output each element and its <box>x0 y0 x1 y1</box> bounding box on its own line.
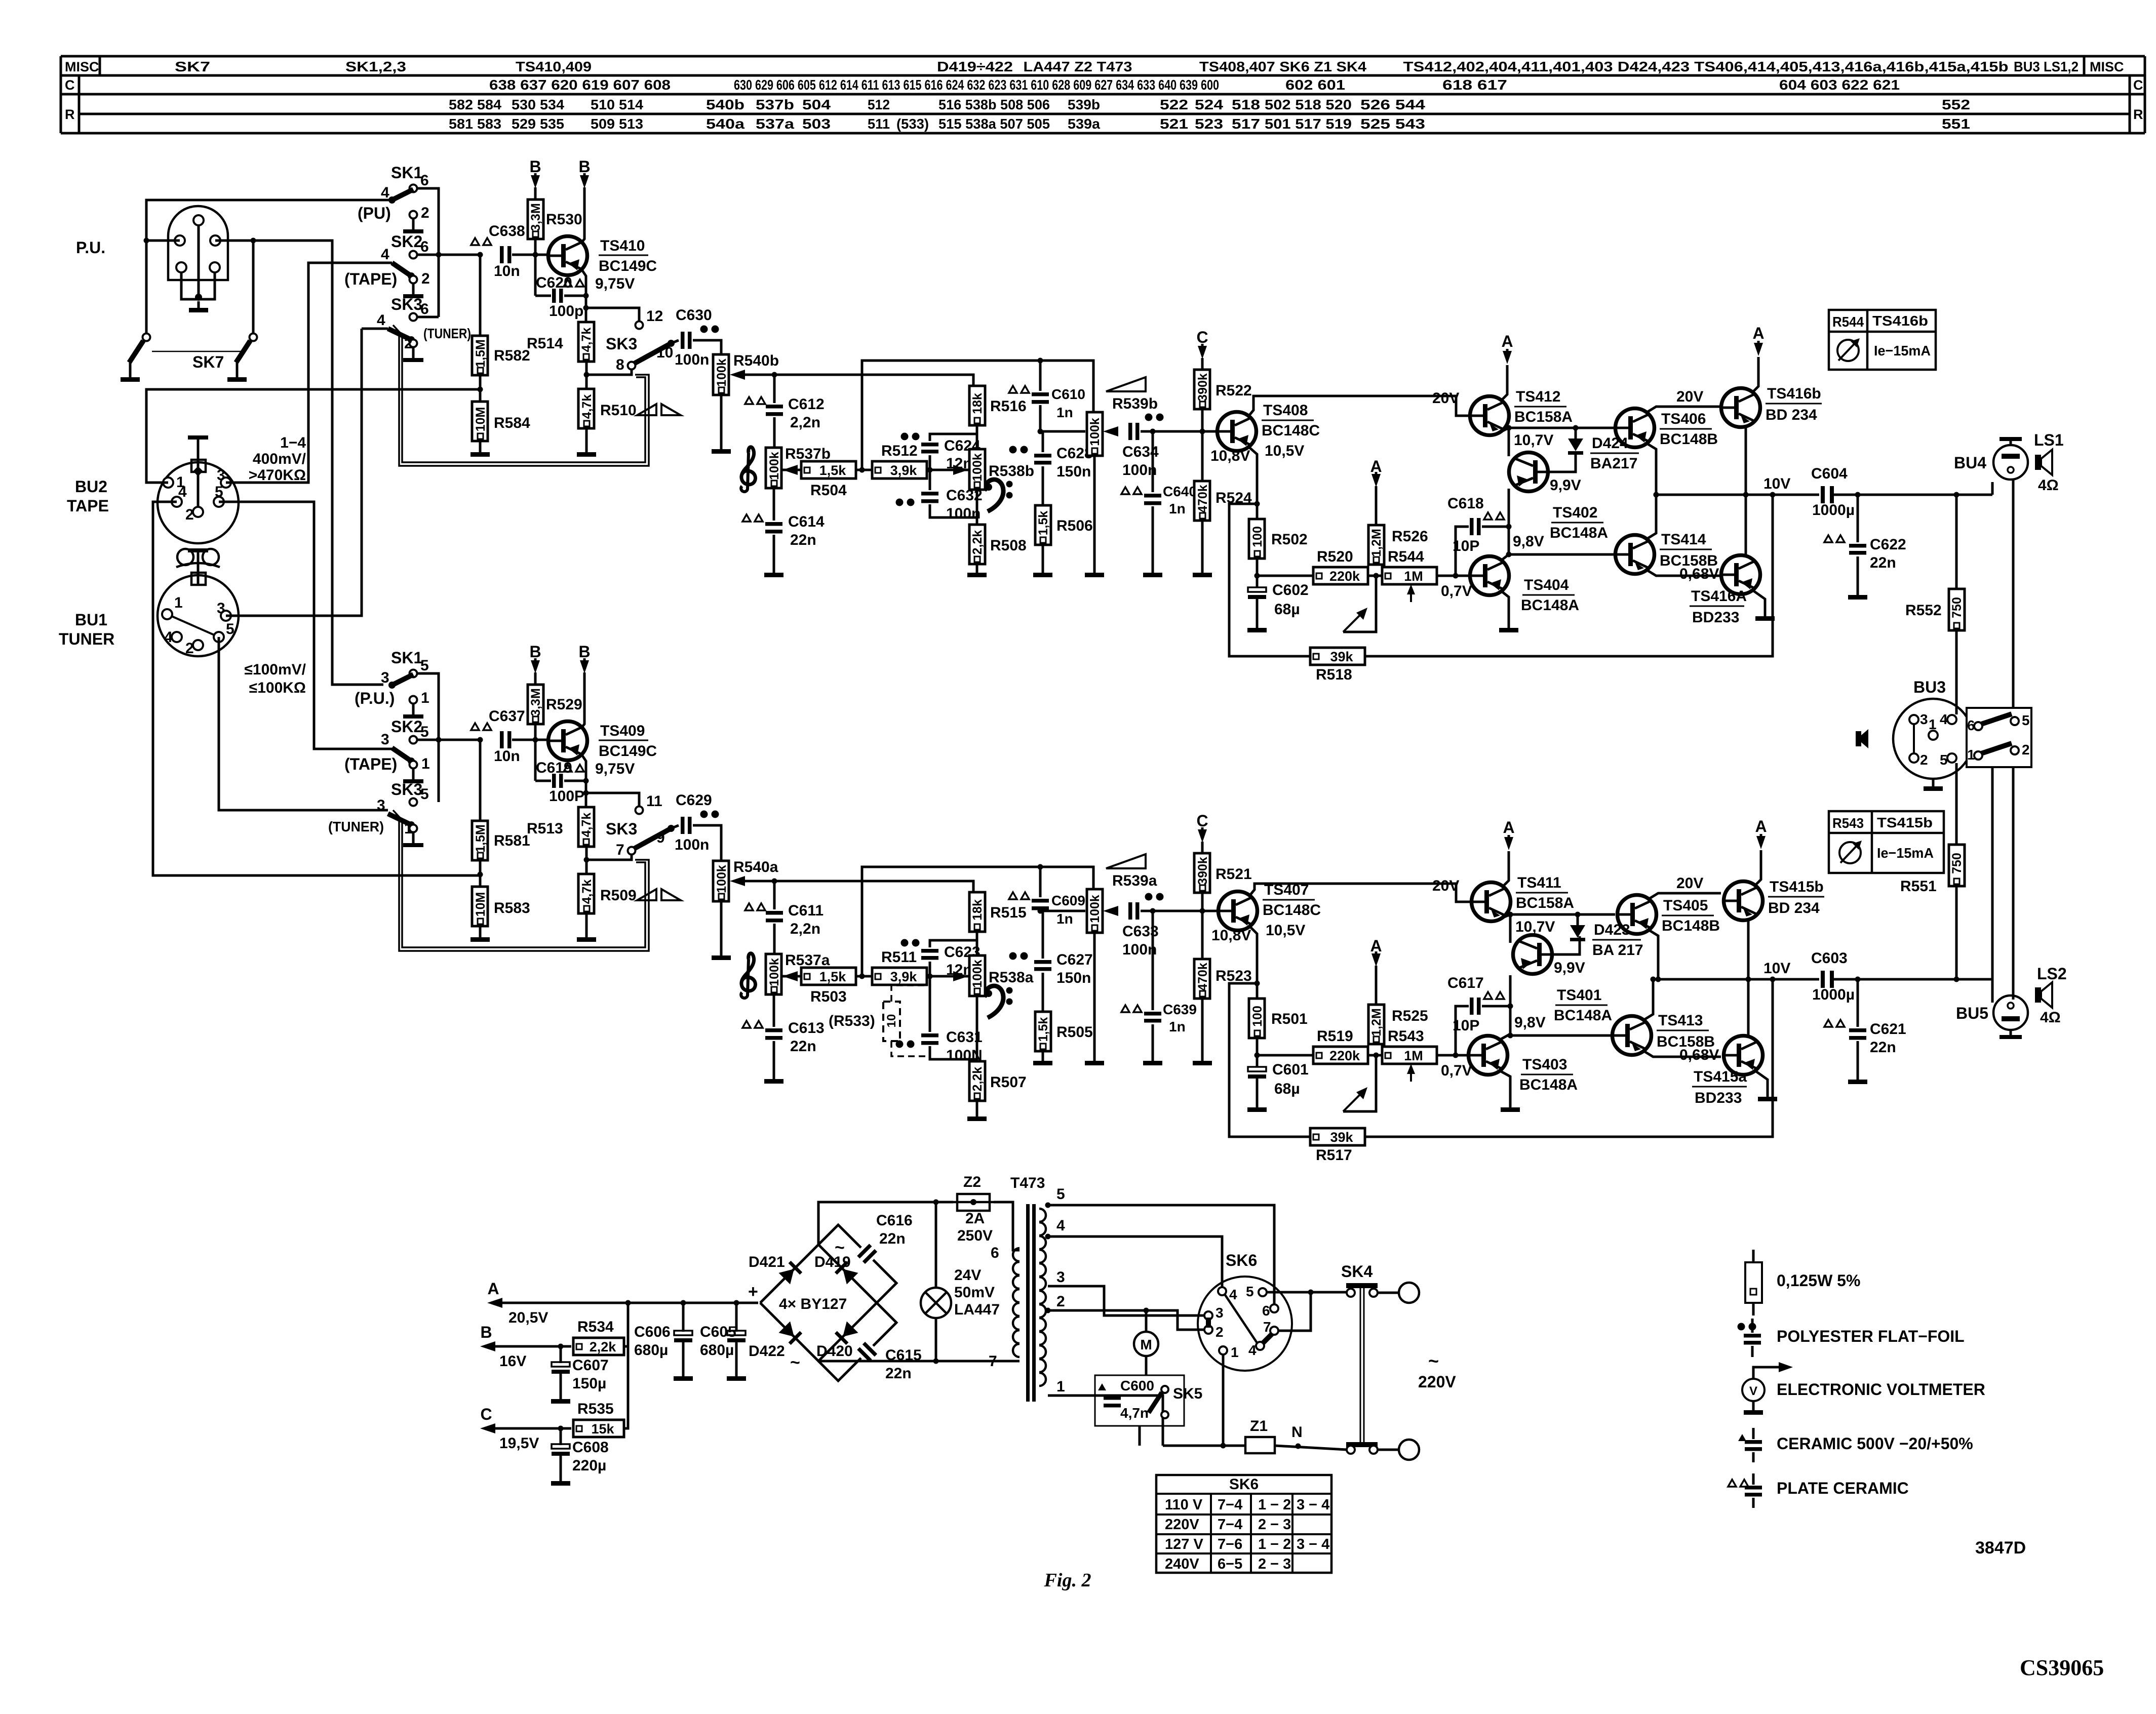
icon treble clef b <box>741 447 756 485</box>
svg-text:R543: R543 <box>1388 1028 1424 1045</box>
svg-text:10n: 10n <box>494 263 520 280</box>
svg-text:9,9V: 9,9V <box>1550 477 1581 494</box>
capacitor C601 <box>1248 1067 1266 1071</box>
wire switch to lower rail corner <box>1991 767 1994 979</box>
transistor TS410 (BC149C) <box>548 236 587 275</box>
svg-text:BC148C: BC148C <box>1263 902 1321 919</box>
svg-text:A: A <box>487 1280 499 1298</box>
svg-text:R503: R503 <box>810 988 847 1005</box>
svg-text:39k: 39k <box>1330 1130 1353 1145</box>
svg-text:R537b: R537b <box>785 446 831 462</box>
svg-text:1: 1 <box>1967 747 1975 763</box>
svg-text:11: 11 <box>646 793 662 810</box>
svg-text:4: 4 <box>377 312 385 329</box>
marker plate-ceramic C640 <box>1121 487 1129 494</box>
transistor TS411 (BC158A) <box>1472 883 1511 922</box>
svg-text:~: ~ <box>1428 1350 1439 1371</box>
wire tap4 to SK6 pin4 <box>1048 1237 1222 1287</box>
transistor TS416b (BD234) <box>1721 388 1760 427</box>
svg-text:SK5: SK5 <box>1173 1385 1202 1402</box>
node emitter TS410 <box>583 293 589 299</box>
ground R507 <box>976 1101 978 1117</box>
resistor R519 <box>1313 1047 1368 1064</box>
switch SK3 lower contact 1 bar <box>412 832 415 843</box>
node divider a <box>478 872 483 878</box>
node TS414 collector rail <box>1654 492 1659 498</box>
transistor TS413 (BC158B) <box>1613 1016 1652 1055</box>
wire TS402 base to D424 <box>1548 454 1576 472</box>
wire R544 to base <box>1437 575 1470 577</box>
wire node to R539b <box>1040 430 1085 433</box>
svg-text:5: 5 <box>215 484 223 500</box>
svg-text:6: 6 <box>991 1245 999 1261</box>
wire C627 bottom <box>1042 973 1044 1012</box>
resistor R516 <box>969 386 985 425</box>
connector BU4 (speaker jack) <box>1993 445 2028 480</box>
svg-text:R502: R502 <box>1271 531 1308 548</box>
svg-text:R515: R515 <box>990 904 1027 921</box>
resistor R505 <box>1035 1012 1051 1051</box>
ground TS415a <box>1767 1095 1769 1097</box>
svg-text:SK2: SK2 <box>391 232 422 251</box>
wire TS416A emitter <box>1753 590 1765 614</box>
node C618 left <box>1453 1053 1459 1058</box>
svg-text:R504: R504 <box>810 482 847 499</box>
capacitor C624 <box>921 443 938 447</box>
svg-text:0,7V: 0,7V <box>1441 583 1472 600</box>
wire TS401 base to D423 <box>1552 936 1580 954</box>
wire emitter node to contact 12 <box>586 793 639 806</box>
node M top <box>1144 1308 1149 1313</box>
svg-text:LS1: LS1 <box>2034 431 2064 449</box>
svg-text:C613: C613 <box>788 1020 825 1037</box>
svg-text:D420: D420 <box>816 1343 853 1360</box>
capacitor C620 <box>552 289 556 303</box>
svg-text:4Ω: 4Ω <box>2040 1009 2061 1026</box>
svg-text:18k: 18k <box>970 899 985 921</box>
svg-text:3: 3 <box>381 669 389 686</box>
terminal A supply TS416b <box>1754 343 1763 356</box>
svg-text:10V: 10V <box>1763 960 1790 977</box>
ground C601 <box>1256 1079 1259 1107</box>
svg-text:5: 5 <box>420 657 429 674</box>
wire TS408 collector bus <box>1249 396 1470 416</box>
resistor R535 <box>573 1420 624 1437</box>
svg-text:ELECTRONIC VOLTMETER: ELECTRONIC VOLTMETER <box>1777 1380 1985 1399</box>
switch SK1 lower contact 1 bar <box>412 703 415 714</box>
wire C628 bottom <box>1042 466 1044 505</box>
wire to SK4 contact <box>1311 1291 1347 1294</box>
svg-text:TS415a: TS415a <box>1694 1068 1747 1085</box>
node lamp top <box>933 1200 939 1205</box>
svg-text:R530: R530 <box>546 211 582 228</box>
wire C616 branch <box>818 1225 861 1248</box>
svg-text:521: 521 <box>1160 116 1188 132</box>
svg-text:3,9k: 3,9k <box>890 463 918 478</box>
svg-text:TS410: TS410 <box>600 237 645 254</box>
svg-text:537b: 537b <box>756 97 794 112</box>
node emitter rail <box>1656 977 1661 982</box>
wire SK4 to plug top <box>1378 1292 1399 1294</box>
svg-text:C603: C603 <box>1811 950 1848 967</box>
svg-text:7: 7 <box>989 1353 997 1370</box>
svg-text:C605: C605 <box>700 1324 736 1340</box>
svg-text:R544: R544 <box>1832 314 1864 330</box>
node R514 bottom <box>584 372 590 378</box>
wire B rail <box>495 1345 571 1348</box>
switch SK2 contact 2 <box>410 276 417 284</box>
svg-text:539b: 539b <box>1068 97 1100 112</box>
svg-text:100n: 100n <box>675 836 709 853</box>
capacitor C614 <box>765 522 782 526</box>
wire R504-R512 <box>856 469 872 471</box>
svg-text:R514: R514 <box>527 335 563 352</box>
svg-text:R511: R511 <box>881 949 917 966</box>
node SK2-5 junction (lower) <box>436 737 442 743</box>
resistor R521 <box>1194 853 1210 893</box>
svg-text:100k: 100k <box>970 453 985 482</box>
marker polyester C627 <box>1009 952 1017 960</box>
svg-text:1,5k: 1,5k <box>1036 511 1050 536</box>
ground TS416A <box>1764 614 1767 616</box>
svg-text:3: 3 <box>1920 711 1928 727</box>
terminal A supply R526 <box>1371 474 1381 487</box>
wire feedback right <box>1365 495 1773 656</box>
svg-text:SK4: SK4 <box>1341 1262 1373 1281</box>
switch SK3 lever a <box>634 828 671 849</box>
wire TS401 emitter down <box>1509 975 1512 1006</box>
svg-text:(533): (533) <box>896 116 929 132</box>
rectifier bridge outline <box>760 1245 877 1361</box>
potentiometer R540b <box>713 354 729 395</box>
svg-text:SK6: SK6 <box>1229 1476 1259 1493</box>
svg-text:1000µ: 1000µ <box>1812 502 1855 519</box>
svg-text:C629: C629 <box>676 792 712 809</box>
svg-text:3: 3 <box>377 797 385 814</box>
ground R505 <box>1042 1051 1044 1061</box>
marker plate-ceramic C638 <box>471 238 479 245</box>
node 9,8V <box>1506 552 1512 557</box>
svg-text:TS414: TS414 <box>1661 531 1706 548</box>
wire C627 top <box>1040 911 1043 959</box>
svg-text:524: 524 <box>1195 97 1224 112</box>
svg-text:7−4: 7−4 <box>1218 1517 1242 1533</box>
capacitor C621 <box>1849 1028 1866 1032</box>
node R530 bottom a <box>533 737 538 743</box>
capacitor C639 <box>1144 1012 1161 1016</box>
wire TS408 emitter <box>1249 447 1257 519</box>
svg-text:100: 100 <box>1250 526 1265 547</box>
svg-text:4,7k: 4,7k <box>579 813 594 838</box>
svg-text:TS416b: TS416b <box>1767 385 1821 402</box>
wire C633 to base node <box>1141 910 1228 912</box>
wire TS416A collector to rail <box>1745 495 1747 556</box>
svg-text:C611: C611 <box>788 902 824 919</box>
svg-text:516 538b 508 506: 516 538b 508 506 <box>938 97 1050 112</box>
transistor TS401 (BC148A) <box>1513 935 1552 974</box>
svg-text:501 517 519: 501 517 519 <box>1265 116 1352 132</box>
wire C607 stub <box>560 1346 562 1363</box>
switch SK7 left ground <box>129 363 132 377</box>
svg-text:2A: 2A <box>965 1210 985 1227</box>
wire feedback left <box>1229 504 1310 656</box>
wire R512 to R538b node <box>927 469 968 471</box>
svg-text:M: M <box>1140 1337 1152 1352</box>
wire A to R526 <box>1375 486 1378 525</box>
wire BU2 pin4 down to lower divider <box>153 502 480 875</box>
capacitor C608 <box>552 1444 570 1449</box>
node C624 branch b <box>927 467 933 473</box>
node feedback R502 <box>1255 501 1260 507</box>
svg-text:18k: 18k <box>970 393 985 414</box>
resistor R522 <box>1194 370 1210 409</box>
resistor R525 <box>1368 1005 1384 1044</box>
switch SK6 pin6 <box>1270 1304 1278 1312</box>
svg-text:3,9k: 3,9k <box>890 969 918 984</box>
fuse Z2 <box>957 1194 990 1211</box>
resistor R526 <box>1368 525 1384 565</box>
resistor R524 <box>1194 481 1210 521</box>
switch SK7 left lever <box>129 341 143 363</box>
wire R582 top <box>479 255 482 336</box>
svg-text:TS416b: TS416b <box>1872 313 1928 329</box>
svg-text:TS412,402,404,411,401,403 D42: TS412,402,404,411,401,403 D424,423 TS406… <box>1403 59 2009 74</box>
node D423 anode <box>1575 912 1581 918</box>
wire TS411 emitter diag <box>1503 914 1510 918</box>
trimmer arrow R543 <box>1410 1068 1412 1082</box>
svg-text:24V: 24V <box>954 1267 981 1284</box>
switch SK6 lever 4-4 <box>1225 1294 1257 1343</box>
svg-text:20V: 20V <box>1676 388 1703 405</box>
switch SK3 lower contact 5 <box>410 799 417 806</box>
svg-text:TUNER: TUNER <box>59 630 114 648</box>
svg-text:4: 4 <box>1940 711 1948 727</box>
capacitor C613 <box>765 1028 782 1032</box>
wire bottom bus left <box>1163 1445 1245 1447</box>
switch SK4 contact right top <box>1369 1289 1378 1297</box>
svg-text:4,7k: 4,7k <box>579 328 594 352</box>
svg-text:V: V <box>1749 1384 1757 1398</box>
wire R581 top <box>479 740 482 821</box>
svg-text:50mV: 50mV <box>954 1284 995 1301</box>
svg-text:618 617: 618 617 <box>1442 77 1507 93</box>
wire M bottom <box>1145 1356 1148 1375</box>
svg-text:9,8V: 9,8V <box>1513 533 1544 550</box>
resistor R515 <box>969 892 985 932</box>
wire TS407 collector bus <box>1250 884 1470 902</box>
ground R510 <box>585 428 588 452</box>
wire A to R525 <box>1375 966 1378 1005</box>
switch SK1 contact 2 <box>410 211 417 219</box>
svg-text:R520: R520 <box>1317 548 1353 565</box>
svg-text:1M: 1M <box>1404 1048 1423 1063</box>
wire emitter TS410 down <box>582 270 586 323</box>
wire BU2 pin1 to divider <box>146 389 480 483</box>
svg-text:C608: C608 <box>572 1439 609 1456</box>
wiper arrow R539a <box>1103 906 1118 916</box>
svg-text:680µ: 680µ <box>634 1342 668 1359</box>
potentiometer R543 <box>1382 1047 1437 1064</box>
node TS414 collector rail <box>1651 977 1656 982</box>
switch SK5 <box>1161 1386 1168 1393</box>
icon speaker small BU3 <box>1856 731 1861 746</box>
node feedback R501 <box>1255 981 1260 986</box>
svg-text:1 − 2: 1 − 2 <box>1258 1497 1291 1513</box>
svg-text:1: 1 <box>421 690 429 706</box>
svg-text:BC148A: BC148A <box>1550 525 1608 541</box>
resistor R506 <box>1035 505 1051 545</box>
wire C620 right <box>564 295 586 297</box>
icon level ramp a <box>1106 854 1146 868</box>
svg-text:390k: 390k <box>1196 373 1210 402</box>
node C612 top b <box>772 372 777 378</box>
table meter R543/TS415b <box>1829 811 1944 873</box>
svg-text:R581: R581 <box>494 832 530 849</box>
switch SK4 bottom bar <box>1346 1442 1378 1447</box>
capacitor C603 <box>1821 971 1825 988</box>
connector BU2 (DIN socket) <box>158 462 239 543</box>
potentiometer R538a <box>969 955 985 996</box>
capacitor C617 <box>1470 998 1474 1015</box>
wire base to R523 <box>1201 911 1204 959</box>
svg-text:220V: 220V <box>1418 1373 1456 1391</box>
svg-text:150n: 150n <box>1056 463 1091 480</box>
switch SK7 left contact <box>143 334 150 341</box>
node R522 a <box>1200 908 1205 914</box>
connector BU1 (DIN socket) <box>158 575 239 656</box>
wire C rail <box>495 1427 571 1430</box>
marker polyester C632 <box>896 499 904 506</box>
svg-text:4× BY127: 4× BY127 <box>779 1296 847 1312</box>
svg-text:TS402: TS402 <box>1553 504 1597 521</box>
switch SK6 pin3 <box>1204 1311 1212 1320</box>
ground R524 <box>1201 521 1204 573</box>
ground R539a <box>1093 933 1096 1061</box>
wire R521 to base <box>1201 893 1204 911</box>
svg-text:TAPE: TAPE <box>67 497 109 515</box>
svg-text:R540a: R540a <box>733 859 778 875</box>
wire pole to C630 <box>671 340 679 343</box>
svg-text:C616: C616 <box>876 1212 913 1229</box>
wire C630 to R540b <box>693 340 721 355</box>
svg-text:2: 2 <box>421 205 429 221</box>
svg-text:68µ: 68µ <box>1274 601 1300 618</box>
potentiometer R539a <box>1087 889 1103 933</box>
wire C624 bottom <box>929 455 931 470</box>
svg-text:240V: 240V <box>1165 1556 1199 1572</box>
wire TS407 emitter <box>1250 927 1257 999</box>
svg-text:100k: 100k <box>715 358 729 387</box>
wire R511 to R538a node <box>927 975 968 978</box>
resistor R502 <box>1249 519 1265 559</box>
wire BU3 pin5 to R551 <box>1955 763 1958 845</box>
switch SK2 lever <box>392 263 411 276</box>
svg-text:C614: C614 <box>788 513 825 530</box>
svg-text:3 − 4: 3 − 4 <box>1297 1497 1329 1513</box>
svg-text:22n: 22n <box>885 1365 912 1382</box>
marker plate-ceramic C619 <box>564 765 572 772</box>
wire rail after C604 <box>1834 494 1992 496</box>
svg-text:0,125W 5%: 0,125W 5% <box>1777 1271 1860 1290</box>
wire TS412 emitter diag <box>1502 428 1509 431</box>
capacitor C607 <box>552 1362 570 1367</box>
wire C622 top <box>1857 495 1859 542</box>
potentiometer R538b <box>969 449 985 490</box>
svg-text:D419: D419 <box>814 1254 851 1270</box>
svg-text:D422: D422 <box>749 1343 785 1360</box>
transformer primary winding <box>1013 1248 1020 1261</box>
svg-text:BU3 LS1,2: BU3 LS1,2 <box>2014 59 2079 74</box>
node emitter rail <box>1654 492 1659 498</box>
wire C608 stub <box>560 1428 562 1445</box>
wire TS413 emitter <box>1644 1051 1721 1057</box>
icon tape monitor symbols <box>637 404 656 415</box>
svg-text:A: A <box>1503 818 1514 836</box>
svg-text:22n: 22n <box>1870 554 1896 571</box>
capacitor C600 <box>1104 1396 1121 1400</box>
switch SK3 contact 2 <box>410 340 417 347</box>
svg-text:517: 517 <box>1232 116 1260 132</box>
wire TS405 emitter <box>1649 930 1658 979</box>
svg-text:1: 1 <box>421 755 430 772</box>
svg-text:4: 4 <box>164 629 173 646</box>
switch SK6 pin4b <box>1256 1342 1264 1350</box>
svg-text:7: 7 <box>616 842 624 858</box>
svg-text:A: A <box>1752 324 1764 342</box>
node R58x top b <box>478 252 483 258</box>
node C618 right <box>1506 524 1512 530</box>
svg-text:2: 2 <box>421 270 430 287</box>
svg-text:BC158A: BC158A <box>1516 895 1574 911</box>
switch SK6 pin7 <box>1270 1327 1278 1335</box>
wire TS414 collector to rail <box>1647 495 1656 539</box>
svg-text:16V: 16V <box>499 1353 526 1370</box>
switch SK7 right contact <box>250 334 257 341</box>
svg-text:22n: 22n <box>1870 1039 1896 1056</box>
node R526 bottom <box>1374 573 1379 579</box>
resistor R529 <box>528 685 543 724</box>
marker polyester C630 <box>700 326 708 333</box>
svg-text:15k: 15k <box>591 1421 614 1437</box>
svg-text:100k: 100k <box>767 452 781 480</box>
svg-text:R538a: R538a <box>989 969 1034 986</box>
wire C617 node to TS404 coll node <box>1509 1006 1512 1035</box>
wire R502 to R520 <box>1257 575 1313 577</box>
svg-text:602 601: 602 601 <box>1285 77 1345 93</box>
wire R513-R509 <box>585 847 588 874</box>
box motor suppression <box>1095 1375 1184 1426</box>
transistor TS414 (BC158B) <box>1616 535 1655 574</box>
wire R552 to BU3 pin4 <box>1955 630 1958 714</box>
svg-text:4: 4 <box>1229 1287 1237 1302</box>
node mid b <box>859 467 865 473</box>
wire R503 to wiper <box>782 975 801 978</box>
svg-text:SK3: SK3 <box>606 335 637 353</box>
transistor TS416A (BD233) <box>1721 555 1760 594</box>
svg-text:2: 2 <box>185 506 194 523</box>
legend plate ceramic symbol <box>1728 1480 1736 1487</box>
wire R537a to C613 <box>773 994 775 1027</box>
node C640 a <box>1150 908 1156 914</box>
svg-text:R523: R523 <box>1216 968 1252 984</box>
wire (R533) dashed leads <box>891 985 928 1002</box>
svg-text:1: 1 <box>404 820 413 837</box>
svg-text:2,2n: 2,2n <box>790 414 820 431</box>
switch SK7 right lever <box>236 341 250 363</box>
resistor R583 <box>472 887 488 926</box>
wire C629 to R540a <box>693 825 721 863</box>
resistor R511 <box>872 968 927 985</box>
